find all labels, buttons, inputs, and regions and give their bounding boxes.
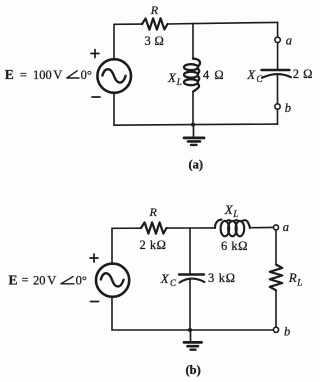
svg-text:R: R: [288, 270, 297, 285]
plus polarity mark (a): [91, 50, 99, 58]
svg-text:X: X: [160, 271, 170, 286]
svg-text:0°: 0°: [76, 273, 87, 287]
svg-text:L: L: [232, 209, 238, 219]
svg-text:C: C: [257, 74, 264, 84]
svg-text:E: E: [9, 272, 18, 287]
resistor R (circuit a): [142, 18, 168, 29]
plus polarity mark (b): [90, 254, 98, 262]
svg-text:4 Ω: 4 Ω: [203, 68, 225, 82]
inductor XL (circuit a): [184, 59, 200, 92]
svg-text:2 kΩ: 2 kΩ: [140, 238, 167, 252]
svg-text:V: V: [47, 273, 56, 287]
svg-text:L: L: [296, 277, 302, 287]
svg-text:X: X: [224, 202, 234, 217]
node a terminal (circuit a): [275, 37, 280, 42]
node b terminal (circuit b): [273, 327, 278, 332]
wire: right vertical to terminal a (a): [277, 22, 279, 36]
resistor RL (circuit b): [270, 265, 283, 291]
wire: capacitor to terminal b (a): [277, 75, 279, 104]
junction dot middle/bottom rail (a): [191, 123, 195, 127]
svg-text:X: X: [167, 70, 177, 85]
svg-text:=: =: [20, 68, 27, 82]
wire: left vertical top, source to top rail (b): [111, 228, 113, 264]
capacitor XC (circuit a): [262, 70, 292, 78]
wire: middle branch bottom, inductor to bottom rail (a): [192, 92, 194, 125]
svg-text:=: =: [22, 273, 29, 287]
label XC (b): [160, 271, 177, 288]
svg-text:b: b: [284, 325, 290, 339]
wire: capacitor branch top, rail to capacitor (b): [189, 228, 191, 275]
svg-text:20: 20: [33, 273, 46, 287]
wire: terminal a to RL (b): [275, 231, 277, 265]
svg-text:a: a: [283, 220, 289, 234]
svg-text:V: V: [53, 68, 62, 82]
svg-text:(b): (b): [186, 363, 201, 377]
minus polarity mark (a): [92, 96, 100, 98]
wire: terminal b to bottom rail (a): [277, 110, 279, 124]
node b terminal (circuit a): [275, 104, 280, 109]
wire: RL to terminal b (b): [275, 290, 277, 326]
ac source E2 (circuit b): [96, 264, 129, 297]
label E = 20 V angle 0 (source value, circuit b): [9, 272, 87, 287]
wire: capacitor to bottom rail (b): [189, 279, 191, 330]
svg-text:E: E: [5, 67, 14, 82]
label RL (b): [288, 270, 302, 287]
ac source E1 (circuit a): [97, 59, 131, 93]
svg-text:6 kΩ: 6 kΩ: [221, 239, 248, 253]
junction dot capacitor/bottom rail (b): [188, 328, 192, 332]
wire: bottom rail (a): [114, 124, 278, 125]
wire: middle branch top, rail to inductor (a): [192, 24, 194, 59]
wire: left vertical top, source to top rail (a): [113, 24, 115, 60]
wire: top rail left segment (a): [114, 23, 142, 25]
svg-text:2 Ω: 2 Ω: [293, 67, 313, 81]
svg-text:3 Ω: 3 Ω: [145, 34, 165, 48]
wire: inductor to terminal a (b): [250, 226, 273, 228]
svg-text:100: 100: [33, 68, 52, 82]
svg-text:a: a: [286, 34, 292, 48]
svg-text:0°: 0°: [81, 68, 92, 82]
svg-text:3 kΩ: 3 kΩ: [208, 271, 236, 285]
label XL (b): [224, 202, 239, 219]
svg-text:b: b: [285, 101, 291, 115]
minus polarity mark (b): [91, 301, 99, 303]
wire: bottom rail (b): [112, 329, 273, 331]
svg-text:(a): (a): [189, 157, 204, 171]
label XL (a): [167, 70, 182, 87]
wire: terminal a to capacitor (a): [277, 43, 279, 70]
label XC (a): [246, 67, 263, 84]
inductor XL (circuit b): [215, 220, 250, 237]
node a terminal (circuit b): [274, 225, 279, 230]
wire: top rail middle segment (b): [167, 227, 216, 229]
capacitor XC (circuit b): [179, 275, 205, 283]
svg-text:C: C: [170, 278, 177, 288]
svg-text:R: R: [150, 3, 159, 17]
ground symbol (a): [184, 125, 204, 145]
label E = 100 V angle 0 (source value, circuit a): [5, 67, 92, 82]
svg-text:R: R: [149, 205, 158, 219]
svg-text:L: L: [176, 77, 182, 87]
resistor R (circuit b): [141, 222, 167, 233]
wire: left vertical bottom, source to bottom rail (b): [111, 296, 113, 330]
wire: left vertical bottom, source to bottom rail (a): [113, 93, 115, 126]
ground symbol (b): [184, 330, 202, 350]
wire: top rail left segment (b): [112, 227, 141, 229]
wire: top rail right segment (a): [168, 22, 278, 24]
svg-text:X: X: [246, 67, 256, 82]
